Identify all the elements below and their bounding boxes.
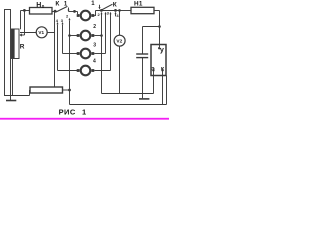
svg-text:3: 3 xyxy=(93,42,96,48)
svg-text:2: 2 xyxy=(93,24,96,30)
svg-text:1: 1 xyxy=(82,107,86,116)
svg-text:V1: V1 xyxy=(38,30,44,35)
svg-text:V2: V2 xyxy=(116,39,122,45)
svg-text:у: у xyxy=(160,45,164,54)
svg-text:0: 0 xyxy=(42,4,45,9)
svg-text:Н: Н xyxy=(36,2,41,9)
svg-text:РИС: РИС xyxy=(59,107,76,116)
svg-text:Н1: Н1 xyxy=(134,0,143,7)
svg-text:К: К xyxy=(113,2,117,9)
svg-text:э: э xyxy=(151,66,155,73)
svg-text:К: К xyxy=(55,1,59,8)
svg-text:4: 4 xyxy=(93,59,96,65)
svg-text:R: R xyxy=(20,43,25,50)
